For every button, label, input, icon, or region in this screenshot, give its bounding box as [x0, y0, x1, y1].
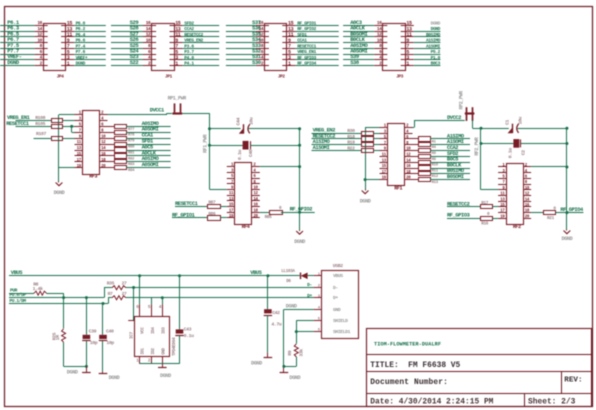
wire net P3.6 from JP1 pin 7 — [183, 48, 220, 50]
wire net P3.7 from JP1 pin 5 — [183, 54, 220, 56]
net label S22 — [130, 59, 139, 66]
pin 5 of RF3 — [75, 124, 83, 128]
net label P5.2 — [431, 49, 441, 55]
resistor R7 27 — [108, 291, 127, 300]
pin 16 of JP1 — [143, 20, 156, 26]
svg-text:RF4: RF4 — [242, 224, 250, 230]
pin 16 of RF1 — [405, 165, 413, 169]
wire net RESETCC2 from JP1 pin 11 — [183, 36, 220, 38]
wire R18 to RF1 pin5 — [374, 138, 380, 140]
net label P4.1 — [184, 61, 194, 67]
resistor R9 33k — [287, 344, 305, 357]
svg-text:VREG_EN1: VREG_EN1 — [297, 49, 316, 55]
svg-text:C43: C43 — [184, 327, 192, 333]
wire C44 row left — [210, 128, 241, 130]
svg-text:1: 1 — [175, 61, 178, 67]
net label A0SOMI — [142, 127, 159, 133]
capacitor C1 10u — [504, 117, 523, 134]
svg-text:10: 10 — [37, 37, 42, 43]
svg-text:D-: D- — [333, 285, 338, 291]
svg-text:RF_GPIO2: RF_GPIO2 — [297, 26, 316, 32]
pin 16 of RF2 — [523, 204, 531, 208]
junction right rail mid — [565, 142, 568, 145]
resistor R87 — [208, 201, 221, 209]
wire DP jog up — [104, 288, 112, 298]
svg-text:R105: R105 — [35, 121, 45, 127]
wire IC7 left pin drop — [133, 288, 135, 321]
wire RF3 pin10 to R79 — [108, 138, 115, 140]
net label P6.3 — [7, 25, 20, 32]
net label P7.7 — [7, 48, 19, 55]
junction VBUS/C42 — [266, 274, 269, 277]
pin 4 of RF2 — [523, 170, 531, 174]
net label RF_GPIO2 — [297, 26, 316, 32]
svg-text:R78: R78 — [128, 134, 135, 138]
net label DGND at USB GND — [286, 304, 297, 310]
net label P3.6 — [184, 43, 194, 49]
wire R105 to RF3 pin5 — [63, 126, 75, 128]
pin 1 of RF2 — [498, 164, 506, 168]
pin 13 of JP4 — [61, 26, 74, 32]
net label B0SOMI — [447, 174, 464, 180]
connector JP2 — [265, 24, 287, 71]
svg-text:VREF+: VREF+ — [76, 55, 88, 61]
wire net P6.3 to JP4 pin 14 — [0, 31, 35, 33]
wire net P4.0 from JP1 pin 3 — [183, 59, 220, 61]
pin 12 of JP2 — [256, 32, 269, 38]
net label SFD2 — [184, 21, 194, 27]
pin 8 of RF4 — [252, 181, 260, 185]
svg-text:VREG_EN2: VREG_EN2 — [184, 38, 203, 44]
pin 14 of JP2 — [256, 26, 269, 32]
svg-text:Sheet: 2/3: Sheet: 2/3 — [528, 397, 576, 406]
wire R19 to RF1 pin7 — [374, 144, 380, 146]
wire R7 to USB D+ — [126, 297, 314, 299]
net label S38 — [350, 59, 360, 66]
svg-text:R11: R11 — [432, 169, 439, 173]
svg-text:27: 27 — [122, 281, 127, 287]
wire R83 to net A0SIMO — [126, 161, 171, 163]
net label A0C5 — [142, 144, 153, 150]
wire net CCA2 from JP1 pin 13 — [183, 31, 220, 33]
svg-text:DGND: DGND — [54, 190, 65, 196]
wire net P6.0 from JP4 pin 15 — [74, 25, 106, 27]
svg-text:C42: C42 — [272, 310, 280, 316]
wire PU.1/DM — [9, 303, 108, 305]
wire RF_GPIO3 to R16 — [447, 218, 481, 220]
pin 2 of JP2 — [256, 60, 269, 66]
wire SHIELD tie — [296, 321, 313, 332]
wire net S29 to JP1 pin 16 — [111, 25, 143, 27]
wire R16 to RF2 pin19 — [493, 218, 499, 220]
svg-text:CCA2: CCA2 — [184, 26, 194, 32]
net label DGND — [431, 26, 441, 32]
wire C43 to IC7 ground bus — [162, 336, 179, 364]
svg-text:RF_GPIO4: RF_GPIO4 — [297, 61, 316, 67]
resistor R81 — [115, 148, 136, 156]
pin 2 of JP4 — [35, 60, 48, 66]
svg-text:P6.6: P6.6 — [76, 38, 86, 44]
pin 15 of RF4 — [227, 204, 235, 208]
wire R4 to net A1SOMI — [430, 144, 470, 146]
wire RF1 pin20 to R13 — [413, 179, 419, 181]
pin 3 of RF2 — [498, 170, 506, 174]
pin 9 of RF2 — [498, 187, 506, 191]
connector USB2 — [314, 263, 359, 338]
pin 3 of JP3 — [401, 55, 414, 61]
pin 12 of RF4 — [252, 192, 260, 196]
wire net S37 to JP2 pin 16 — [226, 25, 256, 27]
pin 12 of RF2 — [523, 193, 531, 197]
resistor R86 — [208, 212, 221, 221]
resistor R105 — [35, 121, 62, 129]
title block company name — [374, 341, 441, 347]
wire net SFD2 from JP1 pin 15 — [183, 25, 220, 27]
wire RF3 pin2 to DVCC1 — [108, 113, 173, 114]
pin 19 of RF4 — [227, 215, 235, 219]
svg-text:RF2: RF2 — [513, 224, 521, 230]
svg-text:JP2: JP2 — [278, 74, 286, 79]
wire RF1 pin16 to R11 — [413, 168, 419, 170]
svg-text:P7.4: P7.4 — [76, 43, 86, 49]
pin 4 of JP4 — [35, 55, 48, 61]
junction VBUS/IC7 vcc — [138, 274, 141, 277]
wire VBUS to C43 — [179, 276, 181, 330]
net label A1SOMI — [426, 43, 441, 49]
pin 20 of RF2 — [523, 215, 531, 219]
net label A0SIMO — [142, 156, 160, 162]
resistor R13 — [419, 178, 439, 186]
pin 6 of RF3 — [100, 124, 108, 128]
pin 10 of RF3 — [100, 135, 108, 139]
pin 10 of JP3 — [374, 37, 387, 43]
wire net S22 to JP1 pin 2 — [111, 65, 143, 67]
net label P7.6 — [76, 49, 86, 55]
wire R84 to net A0SOMI — [126, 167, 171, 169]
wire USB GND to ground — [283, 309, 285, 366]
wire RF4 pin2 to ground rail — [260, 166, 300, 168]
svg-text:RF_GPIO4: RF_GPIO4 — [560, 207, 584, 213]
wire net A1SIMO from JP3 pin 9 — [414, 42, 441, 44]
net label P3.7 — [184, 49, 194, 55]
junction node RESETCC1 branch — [70, 125, 73, 128]
wire C40b to ground — [102, 341, 104, 372]
svg-text:TPD4E004: TPD4E004 — [172, 337, 177, 356]
svg-text:R13: R13 — [432, 181, 439, 185]
pin 1 of JP3 — [401, 61, 414, 67]
pin 20 of RF4 — [252, 215, 260, 219]
pin 8 of JP1 — [143, 43, 156, 49]
svg-text:C39: C39 — [89, 329, 97, 335]
wire VBUS to IC7 VCC pin — [139, 276, 141, 305]
svg-text:12: 12 — [37, 32, 42, 38]
capacitor C40 0.1u bypass — [237, 141, 254, 160]
wire VBUS — [9, 275, 300, 277]
svg-text:1M: 1M — [55, 335, 61, 340]
net label PU.1/DM — [9, 298, 26, 304]
svg-text:DGND: DGND — [251, 360, 262, 366]
pin 2 of RF3 — [100, 112, 108, 116]
svg-text:16: 16 — [37, 20, 42, 26]
resistor R79 — [115, 137, 136, 144]
svg-text:10p: 10p — [106, 340, 114, 346]
pin 20 of RF1 — [405, 177, 413, 181]
pin 5 of JP1 — [170, 49, 183, 55]
svg-text:R17: R17 — [481, 201, 489, 206]
wire net A0C3 to JP3 pin 16 — [343, 25, 374, 27]
svg-text:DGND: DGND — [360, 198, 371, 204]
svg-text:JP3: JP3 — [396, 74, 404, 79]
pin 11 of JP3 — [401, 32, 414, 38]
wire R108 to RF3 pin3 — [63, 120, 75, 122]
wire net A1SOMI from JP3 pin 7 — [414, 48, 441, 50]
svg-text:16: 16 — [377, 20, 382, 26]
net label RESETCC1 — [297, 43, 316, 49]
svg-text:R107: R107 — [36, 131, 46, 137]
svg-text:1: 1 — [406, 61, 409, 67]
pin 15 of JP2 — [282, 21, 295, 27]
svg-text:SFD1: SFD1 — [297, 32, 307, 38]
wire net VREF+ from JP4 pin 3 — [74, 59, 106, 61]
wire net S34 to JP2 pin 10 — [226, 42, 256, 44]
net label P6.1 — [7, 19, 20, 26]
junction right rail top — [565, 127, 568, 130]
junction rail/C44 wire — [208, 127, 211, 130]
svg-text:RP2_PWR: RP2_PWR — [458, 91, 464, 110]
pin 11 of JP1 — [170, 32, 183, 38]
svg-text:14: 14 — [37, 26, 42, 32]
wire net S27 to JP1 pin 12 — [111, 36, 143, 38]
svg-text:P5.2: P5.2 — [431, 49, 441, 55]
junction D- line IC7 — [132, 286, 135, 289]
svg-text:C1: C1 — [504, 119, 510, 124]
svg-text:D6: D6 — [286, 279, 291, 284]
pin 11 of JP2 — [282, 32, 295, 38]
net label P6.2 — [76, 26, 86, 32]
pin 15 of JP3 — [401, 21, 414, 27]
wire net P6.7 to JP4 pin 10 — [0, 42, 35, 44]
pin 13 of RF2 — [498, 198, 506, 202]
wire net P6.1 to JP4 pin 16 — [0, 25, 35, 27]
svg-text:P6.0: P6.0 — [76, 21, 86, 27]
svg-text:R108: R108 — [35, 115, 45, 121]
svg-text:GND: GND — [163, 347, 167, 354]
net label VREG_EN2 — [184, 38, 203, 44]
svg-text:DGND: DGND — [431, 26, 441, 32]
wire net S28 to JP1 pin 14 — [111, 31, 143, 33]
svg-text:10p: 10p — [90, 340, 98, 346]
net label RESETCC2 at R17 — [447, 201, 470, 207]
pin 7 of JP4 — [61, 44, 74, 50]
net label S31 — [252, 53, 262, 60]
wire D6 to USB2 VBUS pin — [308, 275, 314, 277]
pin 8 of JP4 — [35, 43, 48, 49]
net label D- at USB — [307, 282, 312, 288]
pin 7 of RF1 — [380, 142, 388, 146]
svg-text:14: 14 — [377, 26, 382, 32]
svg-text:P4.0: P4.0 — [184, 55, 194, 61]
wire net VREG_EN2 from JP1 pin 9 — [183, 42, 220, 44]
pin 7 of JP1 — [170, 44, 183, 50]
pin 6 of JP1 — [143, 49, 156, 55]
wire R30 to RF1 pin3 — [374, 133, 380, 135]
wire VREG_EN2 to R30 — [312, 133, 362, 135]
net label P7.5 — [7, 42, 20, 49]
resistor R30 — [347, 128, 373, 135]
wire RF1 pin8 to R4 — [413, 144, 419, 146]
wire IC7 ground bus — [140, 363, 163, 365]
RF module header RF3 — [83, 111, 100, 175]
junction SHIELD1 — [295, 330, 298, 333]
power rail RF1_PWR vertical — [209, 113, 211, 189]
title block title row — [370, 361, 460, 370]
net label S24 — [130, 48, 140, 55]
pin 1 of RF1 — [380, 125, 388, 129]
pin 9 of RF1 — [380, 148, 388, 152]
pin 18 of RF3 — [100, 159, 108, 163]
ground DGND under USB — [280, 366, 301, 381]
pin 9 of JP3 — [401, 38, 414, 44]
pin 7 of RF3 — [75, 129, 83, 133]
resistor R77 — [115, 125, 136, 132]
wire net DGND to JP4 pin 2 — [0, 65, 35, 67]
svg-text:RF_GPIO3: RF_GPIO3 — [297, 55, 316, 61]
ground DGND under RF3 — [54, 182, 65, 197]
wire R78 to net A0SOMI — [126, 132, 171, 134]
resistor R85 — [265, 206, 283, 220]
svg-text:1: 1 — [67, 61, 70, 67]
svg-text:R16: R16 — [481, 222, 489, 227]
wire net S30 to JP2 pin 2 — [226, 65, 256, 67]
wire net A0SIMO to JP3 pin 8 — [343, 48, 374, 50]
net label S30 — [252, 59, 261, 66]
svg-text:JP1: JP1 — [165, 74, 173, 79]
svg-text:RF1_PWR: RF1_PWR — [202, 134, 208, 153]
svg-text:S38: S38 — [350, 59, 360, 66]
wire R17 to RF2 pin15 — [493, 206, 499, 208]
svg-text:IO1: IO1 — [141, 347, 145, 354]
wire C44 row right — [249, 128, 300, 130]
wire net SFD1 from JP2 pin 11 — [295, 36, 338, 38]
wire RF3 pin14 to R81 — [108, 150, 115, 152]
svg-text:1: 1 — [288, 61, 291, 67]
resistor R17 — [481, 201, 493, 209]
svg-text:SHIELD: SHIELD — [333, 318, 348, 324]
ground DGND under C40 — [99, 372, 120, 381]
pin 4 of RF3 — [100, 118, 108, 122]
pin 6 of RF2 — [523, 176, 531, 180]
wire R21 to RF_GPIO4 — [555, 212, 583, 214]
svg-text:C40: C40 — [248, 149, 254, 157]
net label PUR — [10, 288, 18, 294]
svg-text:D+: D+ — [307, 293, 312, 299]
svg-text:REV:: REV: — [564, 376, 582, 384]
net label CCA1 — [142, 133, 153, 139]
pin 5 of JP3 — [401, 49, 414, 55]
net label A1SIMO — [426, 38, 441, 44]
net label A0CLK — [350, 25, 365, 32]
net label DGND — [7, 59, 20, 66]
capacitor C43 0.1u — [175, 327, 194, 339]
pin 3 of JP2 — [282, 55, 295, 61]
net label RESETCC1 left — [6, 121, 29, 127]
net label A1SOMI — [447, 139, 464, 145]
svg-text:TITLE: FM F6638 V5: TITLE: FM F6638 V5 — [370, 361, 460, 370]
pin 9 of JP2 — [282, 38, 295, 44]
resistor R10 — [419, 161, 439, 168]
svg-text:10u: 10u — [517, 117, 523, 125]
capacitor C44 10u — [236, 117, 255, 134]
svg-text:RESETCC2: RESETCC2 — [184, 32, 203, 38]
wire RP2 to power rail — [473, 120, 482, 189]
title block document number row — [370, 378, 448, 387]
net label DGND — [76, 61, 86, 67]
svg-text:B0SOMI: B0SOMI — [447, 174, 464, 180]
wire R25 to ground — [64, 342, 87, 366]
net label RESETCC1 at R87 — [175, 201, 198, 207]
wire net P7.5 to JP4 pin 8 — [0, 48, 35, 50]
wire R1 to net A1SIMO — [430, 138, 470, 140]
svg-text:P3.6: P3.6 — [184, 43, 194, 49]
junction rail/C1 wire — [480, 127, 483, 130]
pin 3 of JP4 — [61, 55, 74, 61]
wire C2 row left — [481, 143, 513, 145]
label RF3 — [89, 174, 97, 180]
pin 3 of RF1 — [380, 130, 388, 134]
wire RF3 pin20 to R84 — [108, 167, 115, 169]
pin 14 of JP1 — [143, 26, 156, 32]
net label SFD1 — [297, 32, 307, 38]
pin 13 of JP1 — [170, 26, 183, 32]
label JP4 — [57, 74, 65, 79]
svg-text:DVCC2: DVCC2 — [447, 115, 461, 121]
svg-text:B0SIMO: B0SIMO — [426, 32, 441, 38]
svg-text:R86: R86 — [208, 212, 216, 217]
wire net S32 to JP2 pin 6 — [226, 54, 256, 56]
pin 1 of RF4 — [227, 164, 235, 168]
pin 17 of RF4 — [227, 209, 235, 213]
IC U IC7 TPD4E004 — [128, 304, 177, 363]
svg-text:S22: S22 — [130, 59, 139, 66]
wire net S25 to JP1 pin 8 — [111, 48, 143, 50]
svg-text:P1.0: P1.0 — [431, 55, 441, 61]
resistor R84 — [115, 166, 136, 174]
pin 8 of JP2 — [256, 43, 269, 49]
wire R22 to RF1 pin9 — [374, 150, 380, 152]
junction R9 ground — [282, 365, 285, 368]
pin 2 of JP1 — [143, 60, 156, 66]
pin 14 of JP3 — [374, 26, 387, 32]
junction rail2 top — [298, 127, 301, 130]
svg-text:12: 12 — [377, 32, 382, 38]
svg-text:CCA1: CCA1 — [297, 38, 307, 44]
pin 3 of RF3 — [75, 118, 83, 122]
wire net S24 to JP1 pin 6 — [111, 54, 143, 56]
net label B0CLK — [447, 162, 462, 168]
svg-text:R87: R87 — [208, 201, 216, 206]
pin 6 of JP4 — [35, 49, 48, 55]
resistor R16 — [481, 212, 493, 226]
svg-text:P7.6: P7.6 — [76, 49, 86, 55]
wire net P7.6 from JP4 pin 5 — [74, 54, 106, 56]
svg-text:DGND: DGND — [7, 59, 20, 66]
net label B0C3 — [431, 61, 441, 67]
svg-text:RF1: RF1 — [394, 186, 402, 192]
pin 3 of JP1 — [170, 55, 183, 61]
pin 4 of RF1 — [405, 130, 413, 134]
net label S27 — [130, 30, 139, 37]
wire net S31 to JP2 pin 4 — [226, 59, 256, 61]
